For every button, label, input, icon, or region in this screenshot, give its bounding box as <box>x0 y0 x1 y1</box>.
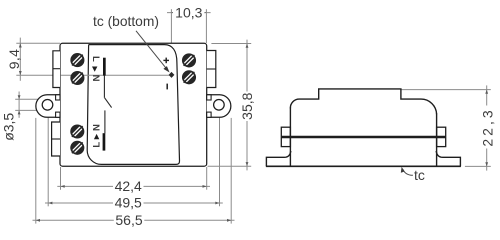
ear notch right bottom <box>207 112 211 117</box>
ear notch left bottom <box>56 112 60 117</box>
dim 22,3 extension line top <box>401 89 491 91</box>
svg-text:42,4: 42,4 <box>115 178 142 194</box>
mounting ear right <box>207 95 231 118</box>
dim 42,4 extension line left <box>60 167 62 190</box>
screw terminal L (top-left upper) <box>71 54 83 66</box>
screw terminal N (top-left lower) <box>71 72 83 84</box>
label arrow triangle (top terminal, pointing down) <box>92 67 97 72</box>
text 35,8 (rotated) <box>241 92 254 122</box>
svg-text:10,3: 10,3 <box>175 4 202 20</box>
text 42,4 <box>113 181 144 192</box>
svg-text:N: N <box>90 75 101 82</box>
wire from switch down to bottom bar <box>104 110 106 133</box>
dim 42,4 dimension line <box>57 185 210 187</box>
base plate left flange <box>266 151 290 166</box>
dim o3,5 extension line bottom <box>15 109 43 111</box>
svg-text:56,5: 56,5 <box>115 212 142 228</box>
dim o3,5 dimension line <box>18 92 20 118</box>
side tab right <box>437 127 446 146</box>
text 22,3 (rotated) <box>481 106 494 149</box>
polarity label plus <box>163 58 169 64</box>
arrows 56,5 <box>36 219 40 222</box>
dim 10,3 dimension line <box>167 12 211 14</box>
ear notch left top <box>56 95 60 100</box>
svg-text:L: L <box>90 56 101 62</box>
arrows 9,4 <box>19 43 22 47</box>
terminal bump upper-left <box>53 51 60 88</box>
dim 35,8 extension line top <box>211 43 251 45</box>
side tab left <box>281 127 290 146</box>
mounting hole left (o3,5) <box>42 100 53 111</box>
dim 49,5 extension line left <box>47 111 49 207</box>
mounting hole right <box>214 100 225 111</box>
svg-text:9,4: 9,4 <box>6 49 22 69</box>
terminal bump upper-right <box>207 51 216 88</box>
wire from top bar down to switch <box>103 76 105 98</box>
dim 9,4 extension line bottom (runs to tc point) <box>16 74 171 76</box>
screw terminal bottom-left lower <box>71 142 83 154</box>
dim 9,4 extension line top <box>16 42 60 44</box>
enclosure base outline <box>60 43 207 166</box>
text 49,5 <box>113 198 144 209</box>
leader arrowhead at tc point <box>163 66 169 72</box>
dim 49,5 dimension line <box>45 202 223 204</box>
tc measurement point (diamond dot) <box>169 72 175 78</box>
dim 56,5 extension line left <box>35 118 37 224</box>
mounting ear left <box>36 95 60 118</box>
mains loop-through bar (bottom) <box>103 133 106 150</box>
svg-text:N: N <box>91 124 102 131</box>
polarity label minus (rotated) <box>166 84 168 90</box>
screw terminal - (top-right lower) <box>183 71 195 83</box>
arrows 10,3 <box>171 11 175 14</box>
svg-text:35,8: 35,8 <box>239 92 255 119</box>
screw terminal bottom-left upper <box>71 125 83 137</box>
label arrow triangle (bottom terminal, pointing up) <box>94 134 99 139</box>
base plate bottom edge <box>266 165 461 167</box>
dim 56,5 extension line right <box>230 118 232 224</box>
wire: 9,4 lower extension re-draw inside lid (to tc point) <box>61 74 172 76</box>
tc leader arrowhead (side view) <box>401 167 405 173</box>
dim 35,8 dimension line <box>246 40 248 171</box>
dim 56,5 dimension line <box>33 219 235 221</box>
terminal bump lower-left <box>52 122 60 156</box>
body left side <box>289 108 291 167</box>
dim 22,3 dimension line <box>486 85 488 170</box>
seam line between base and cover <box>281 136 445 139</box>
svg-text:49,5: 49,5 <box>115 195 142 211</box>
dim 49,5 extension line right <box>219 111 221 207</box>
base plate right flange <box>436 151 460 166</box>
dim 9,4 dimension line <box>19 38 21 81</box>
arrows 49,5 <box>48 202 52 205</box>
arrows 22,3 <box>485 90 488 94</box>
tc leader (side view) <box>403 169 413 175</box>
arrows o3,5 <box>18 95 21 99</box>
arrows 35,8 <box>246 44 249 48</box>
switch blade (diagonal) <box>105 98 112 108</box>
text 56,5 <box>114 215 145 226</box>
screw terminal + (top-right upper) <box>183 54 195 66</box>
dim 10,3 extension line right (down to box top) <box>205 9 207 43</box>
svg-text:L: L <box>91 142 102 148</box>
dim 42,4 extension line right <box>206 167 208 190</box>
enclosure cover (lid) outline <box>87 45 179 165</box>
terminal bump upper-right midline <box>207 68 216 70</box>
arrows 42,4 <box>61 185 65 188</box>
terminal bump lower-left midline <box>52 138 60 140</box>
text 10,3 <box>173 7 205 20</box>
svg-text:ø3,5: ø3,5 <box>0 113 16 141</box>
cover profile with hump <box>290 89 436 114</box>
dim o3,5 extension line top <box>15 98 43 100</box>
ear notch right top <box>207 95 211 100</box>
svg-text:22,3: 22,3 <box>480 107 496 146</box>
mains input bar (top) <box>103 58 106 76</box>
dim 10,3 extension line left (down to tc point) <box>170 9 172 71</box>
leader line from 'tc (bottom)' to tc point <box>136 31 168 70</box>
dim 35,8 extension line bottom <box>208 165 252 167</box>
dim 22,3 extension line bottom <box>465 165 491 167</box>
svg-text:tc: tc <box>414 167 425 183</box>
svg-text:tc (bottom): tc (bottom) <box>93 14 159 29</box>
terminal bump upper-left midline <box>53 68 60 70</box>
body right side <box>436 114 438 167</box>
